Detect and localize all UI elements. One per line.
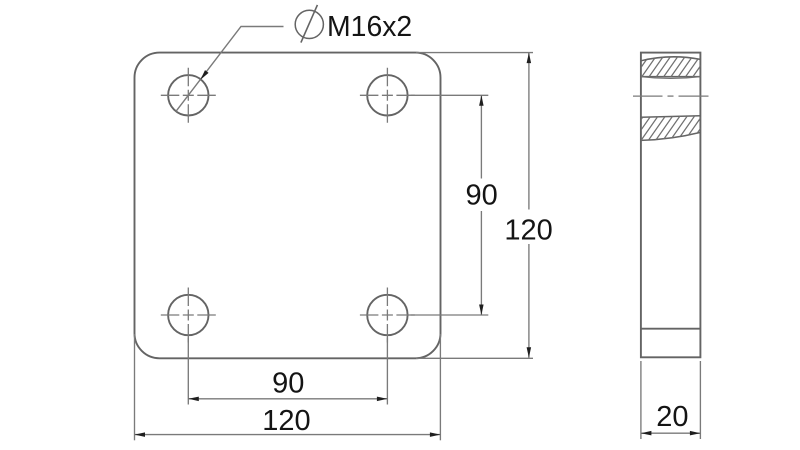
svg-text:120: 120: [262, 405, 310, 437]
svg-text:90: 90: [272, 368, 304, 400]
svg-text:120: 120: [504, 215, 552, 247]
svg-text:20: 20: [656, 401, 688, 433]
svg-text:M16x2: M16x2: [327, 11, 412, 43]
svg-text:90: 90: [465, 180, 497, 212]
